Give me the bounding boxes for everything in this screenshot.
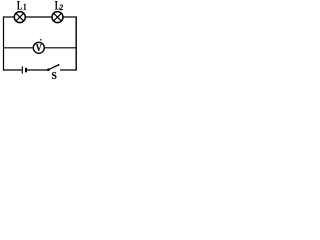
voltmeter U1 [33,42,44,53]
switch S [47,64,59,71]
wire: bottom rail battery to switch [26,69,48,71]
label L1 letter L [17,1,22,10]
wire: voltmeter branch left segment [4,47,34,49]
label S [52,72,56,79]
wire: bottom rail switch to right rail [60,69,76,71]
battery B1 [22,66,26,73]
label L2 subscript 2 [60,5,63,10]
wire: top rail middle segment between L1 and L2 [26,16,53,18]
wire: top rail left segment [4,16,15,18]
wire: bottom rail left segment to battery [4,69,23,71]
switch lever [48,65,58,70]
label L2 letter L [55,1,60,10]
switch pivot dot [47,68,50,71]
lamp L2 [52,12,63,23]
switch lever tip dot [58,64,60,66]
label L1 subscript 1 [24,4,26,10]
battery long plate [21,66,23,73]
wire: voltmeter branch right segment [44,47,76,49]
wire: left rail vertical [3,16,5,70]
lamp L1 [14,12,25,23]
wire: right rail vertical [75,16,77,70]
battery short thick plate [25,68,27,73]
wire: top rail right segment [63,16,76,18]
speck above voltmeter [40,39,42,41]
